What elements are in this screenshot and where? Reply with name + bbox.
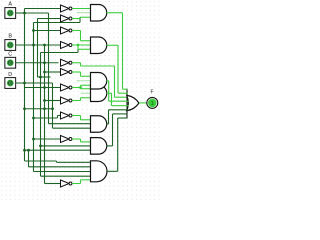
wire U10 step down x80 [80, 139, 82, 142]
wire G5 vertical x108 [108, 110, 110, 124]
wire U9 to G5 top y119.3 [81, 119, 91, 121]
svg-text:1: 1 [151, 101, 154, 107]
wire U3 step down x80 [80, 31, 82, 41]
wire inv2 row y18 [38, 18, 61, 20]
node B junction y30 [32, 29, 35, 32]
wire A spur vertical x48 [48, 13, 50, 124]
node B junction y100 [43, 99, 46, 102]
wire C corner y52 [41, 52, 79, 54]
wire U3 to G2 top y40.25 [81, 40, 91, 42]
node junction x40 y76.5 [39, 76, 42, 79]
wire B to inv9 row y117.5 [34, 117, 58, 119]
wire G4 middle faint [81, 92, 91, 94]
wire G4 vertical x111 [111, 93, 113, 105]
wire G6 to OR y113.4 [113, 113, 128, 115]
inverter U5 [61, 59, 72, 66]
wire U11 to G7 bottom y179.3 [81, 179, 91, 181]
wire U6 out [72, 71, 81, 73]
wire U8 to G4 bottom y97.25 [81, 97, 91, 99]
wire U7 fan vertical x80 [80, 85, 82, 89]
wire D bus vertical x24 low [24, 88, 26, 162]
wire G7 to OR y117.5 [118, 117, 128, 119]
node A junction pin [23, 12, 26, 15]
wire B pin to inv4 [16, 44, 61, 46]
node D junction x44 [43, 107, 46, 110]
wire G7 out [107, 170, 118, 172]
wire G6 out [107, 145, 113, 147]
node U7 fan junction [79, 86, 82, 89]
wire D row y108.25 [25, 108, 53, 110]
inverter U9 [61, 112, 72, 119]
wire U5 out [72, 62, 81, 64]
wire A spur y12.5 to x48 [25, 12, 49, 14]
wire G1 out [107, 12, 123, 14]
wire D vertical x44 low [44, 109, 46, 184]
wire jog x56 G7 top [56, 161, 58, 162]
svg-text:C: C [8, 52, 12, 58]
wire U5 step down x80 [80, 63, 82, 66]
wire B to G7 input y171 [34, 171, 91, 173]
wire x37 vertical [37, 19, 39, 78]
wire U4 fan vertical x77.5 [77, 45, 79, 49]
node D junction x52 [51, 107, 54, 110]
wire U11 out [72, 183, 81, 185]
wire B vertical x33 down [33, 45, 35, 172]
node junction x44 y87 [43, 86, 46, 89]
svg-text:D: D [8, 72, 12, 78]
wire G3 out [107, 80, 109, 82]
wire inv9 row y115 [58, 115, 61, 117]
wire U5 to OR y96.7 [115, 96, 129, 98]
wire G2 to OR y92.7 [118, 92, 128, 94]
inverter U4 [61, 42, 72, 49]
or gate back extension [126, 89, 128, 119]
wire D pin to corner [16, 82, 53, 84]
wire U6 step down x80 [80, 72, 82, 76]
inverter U7 [61, 84, 72, 91]
wire U3 out [72, 30, 81, 32]
wire B step x79.5 [79, 17, 81, 22]
wire U10 to G6 top y141.4 [81, 141, 91, 143]
wire G3 vertical x108.2 [108, 81, 110, 101]
wire U9 step down x80 [80, 116, 82, 120]
wire D vertical x28 [28, 150, 30, 167]
wire G5 out [107, 123, 109, 125]
node C junction y145.4 [39, 145, 42, 148]
inverter U1 [61, 5, 72, 12]
inverter U2 [61, 15, 72, 22]
wire U7 out [72, 87, 81, 89]
wire D to G7 top y160.5 [25, 160, 57, 162]
wire G7 vertical x117.2 [117, 118, 119, 171]
wire B bus vertical x44 [44, 45, 46, 109]
wire B vertical x33 up [33, 23, 35, 46]
wire A to G5 mid y123.2 [49, 123, 91, 125]
node B junction y71.5 [43, 71, 46, 74]
wire U10 out [72, 138, 81, 140]
wire B to inv8 row y100 [45, 100, 61, 102]
wire U7 to G3 bottom y84.75 [81, 84, 91, 86]
wire jog x57 inv9 [57, 116, 59, 119]
wire D to inv11 row y183 [45, 183, 61, 185]
node B junction y117.5 [32, 117, 35, 120]
wire U2 out stub [72, 18, 80, 20]
node B junction y138.5 [32, 138, 35, 141]
node D junction x28 [27, 149, 30, 152]
inverter U3 [61, 27, 72, 34]
wire D vertical x52 [52, 83, 54, 128]
and gate G7 [91, 161, 107, 182]
wire C pin to inv5 [16, 62, 59, 64]
wire C to G6 mid y145.4 [41, 145, 91, 147]
and gate G4 [91, 85, 107, 102]
wire C to G7 input y175.7 [41, 175, 91, 177]
wire U1 out to G1 top [72, 8, 91, 10]
inverter U11 [61, 180, 72, 187]
wire U11 step up x80 [80, 180, 82, 184]
wire G2 out [107, 44, 119, 46]
and gate G6 [91, 138, 107, 155]
wire U8 step up x80 [80, 98, 82, 101]
wire G3 middle faint [77, 80, 91, 82]
input pin D [5, 78, 16, 89]
svg-text:B: B [8, 34, 12, 40]
wire U7 to G4 top y88.25 [81, 88, 91, 90]
wire dead-end y76.5 [38, 76, 51, 78]
node B junction x33 [32, 44, 35, 47]
wire U8 out [72, 100, 81, 102]
wire G2 vertical x117.5 [117, 45, 119, 93]
output pin F [147, 97, 158, 108]
wire A corner to inv1 row y8 [25, 8, 61, 10]
wire A pin to junction [16, 12, 25, 14]
wire G3 to OR y100.7 [109, 100, 129, 102]
wire D to G5 bottom y127.7 [53, 127, 91, 129]
svg-text:F: F [150, 89, 153, 95]
wire U5 vertical x114 [114, 66, 116, 97]
node C junction x44 y62.25 [43, 61, 46, 64]
wire G5 to OR y109.3 [109, 109, 129, 111]
wire D to G7 top y161.8 [57, 161, 91, 163]
svg-text:A: A [8, 2, 12, 8]
inverter U6 [61, 69, 72, 76]
node B junction x44 [43, 44, 46, 47]
node D junction x24 y82.5 [23, 82, 26, 85]
wire G4 to OR y105.2 [112, 105, 129, 107]
node U4 fan junction [77, 44, 80, 47]
wire U5 long y65.5 [81, 65, 115, 67]
wire B corner y22 [34, 22, 81, 24]
input pin B [5, 40, 16, 51]
wire B to inv6 row y71.5 [45, 71, 61, 73]
wire step to G1 bottom y16.75 [80, 16, 91, 18]
wire OR out to F [139, 102, 147, 104]
wire C step x77.5 [77, 49, 79, 52]
wire U9 out [72, 115, 81, 117]
node D junction y149.7 [23, 149, 26, 152]
and gate G3 [91, 73, 107, 90]
and gate G2 [91, 37, 107, 54]
wire G1 to OR y88.7 [123, 88, 128, 90]
wire G6 vertical x112 [112, 114, 114, 146]
wire A corner y87 [25, 87, 61, 89]
wire U4 out to G2 mid [72, 44, 91, 46]
input pin C [5, 57, 16, 68]
or gate [127, 95, 139, 110]
wire B to inv3 row y30 [34, 30, 61, 32]
node D junction x24 [23, 107, 26, 110]
inverter U8 [61, 97, 72, 104]
input pin A [5, 8, 16, 19]
wire C vertical x40 [40, 53, 42, 177]
wire G1 vertical x122 [122, 13, 124, 89]
wire D to G6 bottom y149.7 [25, 149, 91, 151]
wire D to G7 input y166.3 [29, 166, 91, 168]
wire G1 middle faint [77, 12, 91, 14]
wire B to inv10 row y138.5 [34, 138, 61, 140]
inverter U10 [61, 136, 72, 143]
and gate G5 [91, 116, 107, 133]
wire U4 fan to G2 bottom y48.75 [78, 48, 91, 50]
and gate G1 [91, 5, 107, 22]
wire A bus vertical x24 [24, 9, 26, 88]
wire G4 out [107, 92, 112, 94]
wire U6 to G3 top y75.75 [81, 75, 91, 77]
